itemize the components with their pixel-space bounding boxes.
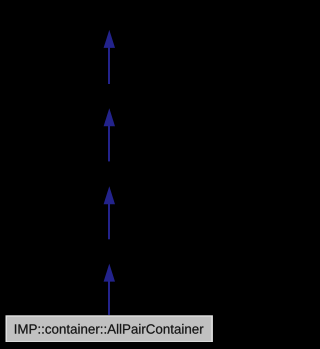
wire inheritance arrow 2: [104, 108, 115, 161]
node label text: IMP::container::AllPairContainer: [15, 324, 204, 334]
wire inheritance arrow 3: [104, 186, 115, 239]
wire inheritance arrow 4 (into node box): [104, 264, 115, 316]
node box IMP::container::AllPairContainer: [5, 315, 214, 343]
wire inheritance arrow 1 (topmost): [104, 30, 115, 84]
